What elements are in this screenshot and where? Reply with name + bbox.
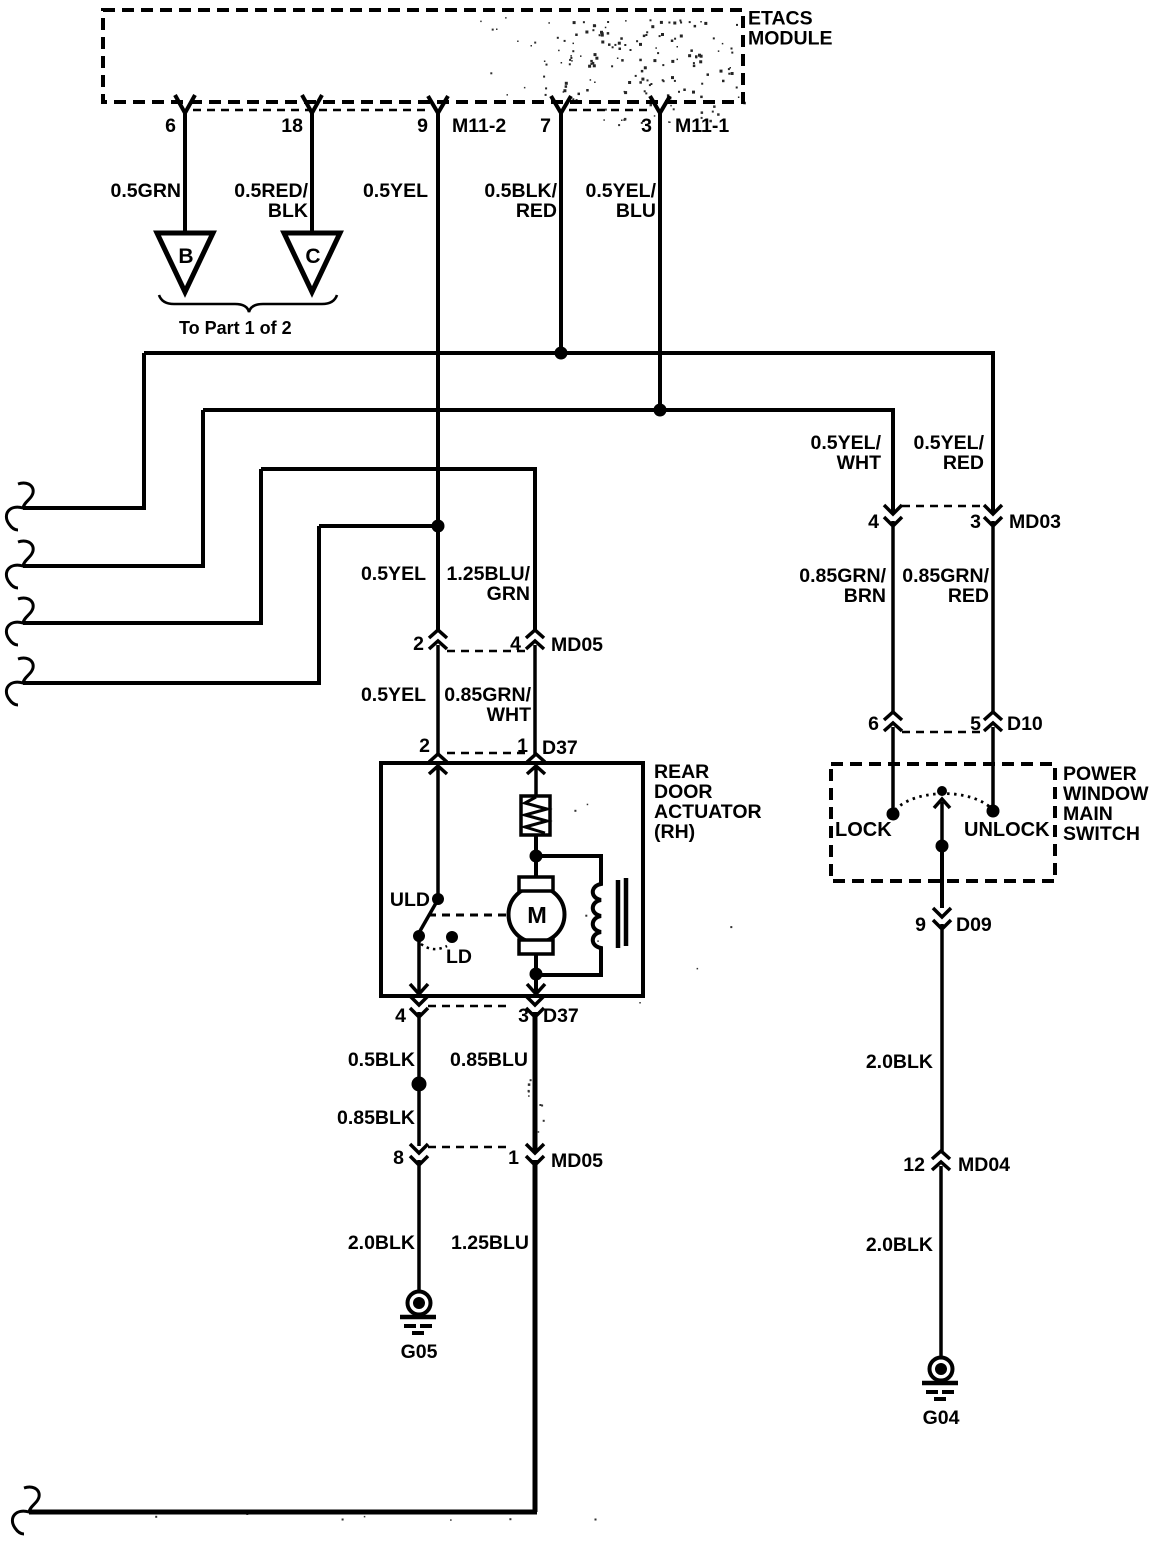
svg-text:0.85BLK: 0.85BLK [337, 1107, 415, 1129]
svg-text:MAIN: MAIN [1063, 803, 1113, 825]
svg-text:3: 3 [970, 511, 981, 533]
wire rail D (to 0.5YEL junction) [319, 524, 438, 528]
svg-text:18: 18 [281, 115, 303, 137]
wire to D09 [940, 846, 944, 908]
connector MD05 pin 8 [410, 1144, 428, 1293]
connector M11-2 pin row dashed line [193, 109, 652, 112]
svg-text:9: 9 [417, 115, 428, 137]
svg-text:0.5BLK: 0.5BLK [348, 1049, 415, 1071]
junction node on 0.5YEL wire [432, 520, 445, 533]
switch wiper arrowhead [934, 799, 950, 846]
svg-text:B: B [178, 245, 193, 268]
connector MD05 pin 1 [526, 1144, 544, 1165]
switch blade [420, 903, 436, 931]
svg-text:1: 1 [508, 1147, 519, 1169]
pin 6 (ETACS) [175, 95, 195, 233]
arrowhead at box bottom right [527, 984, 545, 994]
junction node above motor [530, 850, 543, 863]
svg-text:MD03: MD03 [1009, 511, 1061, 533]
connector D37 (bottom) dashed link [428, 1005, 512, 1008]
svg-text:0.5YEL/: 0.5YEL/ [586, 180, 657, 202]
off-page triangle C [284, 233, 340, 292]
junction node 0.5BLK/0.85BLK [412, 1077, 427, 1092]
svg-text:BLU: BLU [616, 200, 656, 222]
mechanical link dashed [428, 914, 509, 917]
wire 1.25BLU to off-page hook 5 [29, 1510, 537, 1515]
svg-text:9: 9 [915, 914, 926, 936]
svg-text:WHT: WHT [837, 452, 881, 474]
switch common node [937, 786, 947, 796]
svg-text:2: 2 [419, 735, 430, 757]
svg-text:RED: RED [516, 200, 557, 222]
svg-text:1.25BLU/: 1.25BLU/ [447, 563, 531, 585]
svg-text:LOCK: LOCK [835, 819, 892, 841]
connector MD03 pin 4 [884, 505, 902, 712]
contact LOCK [887, 808, 900, 821]
wire to off-page hook 4 [23, 526, 319, 683]
svg-text:ULD: ULD [390, 889, 430, 911]
svg-text:WINDOW: WINDOW [1063, 783, 1149, 805]
svg-text:4: 4 [868, 511, 879, 533]
connector MD03 pin 3 [984, 505, 1002, 712]
switch throw dotted arc [421, 944, 447, 949]
off-page hook 2 [6, 541, 33, 588]
off-page triangle B [157, 233, 213, 292]
svg-text:M11-1: M11-1 [675, 115, 729, 137]
wire rail B (to MD03 pin 4) [203, 410, 893, 513]
pin 3 (ETACS) / wire 0.5YEL/BLU [650, 96, 670, 410]
svg-text:0.5YEL: 0.5YEL [363, 180, 428, 202]
brace under triangles [159, 295, 337, 312]
svg-text:MODULE: MODULE [748, 28, 833, 50]
off-page hook 4 [6, 658, 33, 705]
connector MD04 pin 12 [932, 1151, 950, 1359]
connector D37 pin 3 (bottom) [526, 996, 544, 1017]
wire to off-page hook 3 [23, 469, 261, 623]
svg-text:G04: G04 [923, 1407, 960, 1429]
switch pivot node [413, 930, 425, 942]
svg-text:To Part 1 of 2: To Part 1 of 2 [179, 318, 292, 338]
connector D37 dashed link [447, 752, 527, 755]
svg-text:0.5RED/: 0.5RED/ [234, 180, 308, 202]
connector MD05 (bottom) dashed link [428, 1146, 512, 1149]
resistor (actuator) [521, 796, 550, 835]
svg-text:6: 6 [165, 115, 176, 137]
svg-text:WHT: WHT [487, 704, 531, 726]
svg-text:(RH): (RH) [654, 821, 695, 843]
svg-text:0.5GRN: 0.5GRN [111, 180, 181, 202]
pin 7 (ETACS) / wire 0.5BLK/RED [551, 96, 571, 353]
svg-text:ETACS: ETACS [748, 8, 813, 30]
off-page hook 5 [12, 1487, 39, 1534]
svg-text:4: 4 [395, 1005, 406, 1027]
svg-text:1.25BLU: 1.25BLU [451, 1232, 529, 1254]
svg-text:GRN: GRN [487, 583, 530, 605]
svg-text:0.5YEL/: 0.5YEL/ [811, 432, 882, 454]
svg-text:REAR: REAR [654, 761, 709, 783]
svg-text:0.5YEL: 0.5YEL [361, 563, 426, 585]
arrowhead at box bottom left [410, 984, 428, 994]
connector D10 dashed link [902, 731, 984, 734]
connector MD05 pin 2 [429, 630, 447, 754]
wire resistor to junction [534, 835, 538, 877]
field coil L1 [536, 856, 601, 975]
svg-text:C: C [305, 245, 320, 268]
wire rail A (to MD03 pin 3) [144, 353, 993, 513]
pin 18 (ETACS) [302, 95, 322, 233]
rear door actuator box [381, 763, 643, 996]
wire rail C (to MD05 pin 4) [261, 469, 535, 630]
junction node pin3 on rail B [654, 404, 667, 417]
svg-text:MD05: MD05 [551, 634, 603, 656]
ground G05 [408, 1292, 431, 1315]
switch throw dotted arc [895, 794, 991, 810]
svg-text:0.85GRN/: 0.85GRN/ [799, 565, 886, 587]
svg-text:0.85GRN/: 0.85GRN/ [902, 565, 989, 587]
connector MD05 pin 4 [526, 630, 544, 754]
connector MD05 dashed link [447, 650, 526, 653]
junction node pin7 on rail A [555, 347, 568, 360]
svg-text:D10: D10 [1007, 713, 1043, 735]
svg-text:2.0BLK: 2.0BLK [866, 1234, 933, 1256]
svg-text:0.5BLK/: 0.5BLK/ [484, 180, 557, 202]
connector D37 pin 2 [429, 754, 447, 899]
wire to off-page hook 1 [23, 353, 144, 508]
svg-text:0.85GRN/: 0.85GRN/ [444, 684, 531, 706]
svg-text:M: M [527, 902, 547, 928]
svg-text:12: 12 [903, 1154, 925, 1176]
switch common junction [936, 840, 949, 853]
contact ULD [432, 893, 444, 905]
svg-text:D37: D37 [542, 737, 578, 759]
svg-text:UNLOCK: UNLOCK [964, 819, 1050, 841]
connector D10 pin 6 [884, 712, 902, 814]
svg-text:2.0BLK: 2.0BLK [348, 1232, 415, 1254]
svg-text:0.85BLU: 0.85BLU [450, 1049, 528, 1071]
connector MD03 dashed link [902, 505, 984, 508]
svg-text:POWER: POWER [1063, 763, 1137, 785]
ground G04 [930, 1358, 953, 1381]
connector D37 pin 4 (bottom) [410, 996, 428, 1146]
wire motor to bottom junction [534, 954, 538, 994]
svg-text:RED: RED [948, 585, 989, 607]
wire to off-page hook 2 [23, 410, 203, 566]
svg-text:D09: D09 [956, 914, 992, 936]
svg-text:MD05: MD05 [551, 1150, 603, 1172]
svg-text:0.5YEL: 0.5YEL [361, 684, 426, 706]
svg-text:MD04: MD04 [958, 1154, 1010, 1176]
svg-text:3: 3 [641, 115, 652, 137]
contact UNLOCK [987, 805, 1000, 818]
svg-text:G05: G05 [401, 1341, 438, 1363]
wire pivot to box bottom [417, 940, 421, 994]
svg-text:3: 3 [518, 1005, 529, 1027]
svg-text:ACTUATOR: ACTUATOR [654, 801, 762, 823]
svg-text:D37: D37 [543, 1005, 579, 1027]
svg-text:BLK: BLK [268, 200, 308, 222]
svg-text:LD: LD [446, 946, 472, 968]
power window main switch box [831, 764, 1055, 881]
junction node below motor [530, 968, 543, 981]
motor M1 [509, 887, 565, 943]
connector D10 pin 5 [984, 712, 1002, 811]
pin 9 (ETACS) / wire 0.5YEL [428, 96, 448, 630]
svg-text:M11-2: M11-2 [452, 115, 506, 137]
contact LD [446, 931, 458, 943]
ETACS module box [103, 10, 743, 102]
off-page hook 1 [6, 483, 33, 530]
svg-text:2: 2 [413, 633, 424, 655]
svg-text:6: 6 [868, 713, 879, 735]
svg-text:DOOR: DOOR [654, 781, 713, 803]
svg-text:2.0BLK: 2.0BLK [866, 1051, 933, 1073]
svg-text:8: 8 [393, 1147, 404, 1169]
connector D37 pin 1 [527, 754, 545, 796]
svg-text:0.5YEL/: 0.5YEL/ [914, 432, 985, 454]
off-page hook 3 [6, 598, 33, 645]
svg-text:RED: RED [943, 452, 984, 474]
svg-text:SWITCH: SWITCH [1063, 823, 1140, 845]
svg-text:BRN: BRN [844, 585, 886, 607]
connector D09 pin 9 [933, 908, 951, 1151]
coil core bars [618, 878, 626, 948]
svg-text:7: 7 [540, 115, 551, 137]
